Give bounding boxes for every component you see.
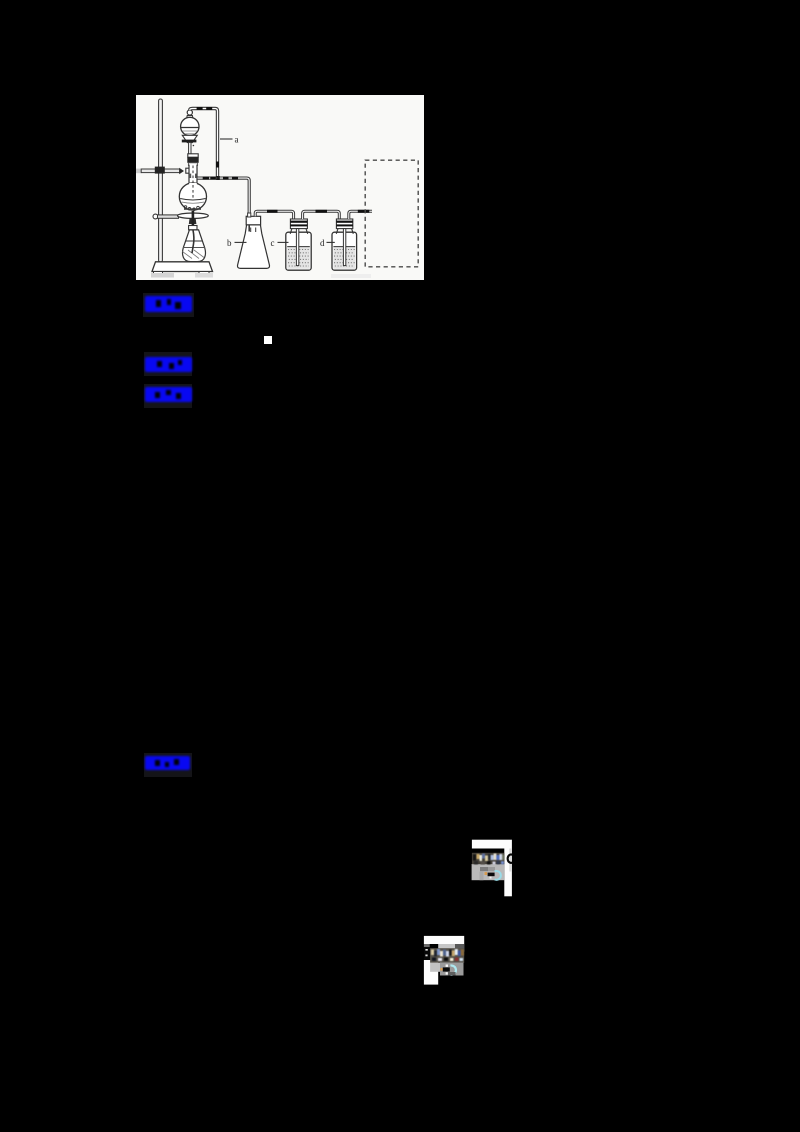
gas washing bottle c	[286, 219, 311, 270]
iron ring and its clamp	[153, 213, 208, 224]
gray mid region with arrow	[430, 963, 463, 976]
stand rod	[159, 99, 163, 262]
label d	[320, 238, 335, 248]
tube b to c	[255, 210, 293, 220]
small white square bullet	[264, 336, 272, 344]
tube a (from funnel top, over and down)	[190, 107, 219, 178]
dashed collection box	[365, 160, 418, 267]
erlenmeyer flask b	[238, 216, 270, 268]
label c	[271, 238, 289, 248]
blue tag 【分析】	[144, 384, 193, 409]
colored speck noise	[431, 949, 464, 961]
outlet tube to the right	[198, 176, 250, 215]
tube d to collection box	[349, 210, 372, 219]
apparatus diagram panel	[136, 95, 424, 280]
dark C glyph on white	[508, 854, 513, 862]
equation image 2 (noisy jpeg fragment)	[418, 930, 470, 990]
svg-text:a: a	[235, 135, 239, 145]
svg-text:b: b	[227, 238, 232, 248]
stand base	[152, 262, 213, 275]
tube c to d	[303, 210, 340, 220]
label b	[227, 238, 247, 248]
colored speck noise row	[473, 854, 504, 865]
label a	[220, 135, 239, 145]
blue tag 【专题】	[144, 352, 193, 376]
round-bottom flask	[179, 183, 206, 211]
gray block details	[480, 867, 501, 880]
tube into b (vertical, drawn above stopper)	[248, 213, 251, 232]
gas washing bottle d	[332, 219, 357, 270]
svg-text:d: d	[320, 238, 325, 248]
blue tag 【解答】	[144, 753, 192, 777]
svg-text:c: c	[271, 238, 275, 248]
bottom-edge smudges	[151, 273, 371, 278]
equation image 1 (noisy jpeg fragment)	[465, 835, 521, 900]
flask stopper and neck	[187, 154, 198, 198]
blue tag 【考点】	[143, 293, 194, 317]
separating funnel	[181, 110, 199, 154]
clamp bar	[136, 167, 197, 175]
alcohol lamp	[182, 211, 205, 262]
